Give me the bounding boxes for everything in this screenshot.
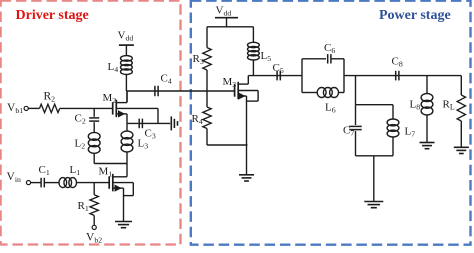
svg-text:L8: L8 [410, 99, 421, 112]
svg-text:Vin: Vin [7, 171, 21, 184]
svg-text:C1: C1 [39, 164, 50, 177]
svg-text:L7: L7 [405, 126, 416, 139]
svg-text:L1: L1 [70, 164, 81, 177]
svg-text:Driver stage: Driver stage [16, 8, 89, 23]
svg-text:C4: C4 [161, 73, 172, 86]
svg-text:L4: L4 [108, 61, 119, 74]
svg-text:Vb1: Vb1 [7, 102, 23, 115]
svg-text:C6: C6 [324, 42, 335, 55]
svg-text:RL: RL [443, 99, 455, 112]
svg-text:Vdd: Vdd [216, 5, 232, 18]
svg-text:L2: L2 [75, 138, 86, 151]
svg-text:Vdd: Vdd [118, 30, 134, 43]
svg-text:R3: R3 [193, 53, 204, 66]
svg-text:R4: R4 [192, 113, 203, 126]
svg-text:R1: R1 [78, 200, 89, 213]
svg-text:L6: L6 [325, 102, 336, 115]
svg-text:C2: C2 [75, 113, 86, 126]
svg-text:L5: L5 [261, 50, 272, 63]
svg-text:C5: C5 [273, 62, 284, 75]
svg-text:C8: C8 [392, 56, 403, 69]
svg-text:Vb2: Vb2 [86, 232, 102, 245]
svg-text:Power stage: Power stage [379, 8, 451, 23]
svg-text:M2: M2 [103, 92, 117, 105]
svg-text:C3: C3 [145, 128, 156, 141]
svg-text:M3: M3 [223, 76, 237, 89]
svg-text:R2: R2 [44, 91, 56, 104]
svg-text:M1: M1 [99, 166, 113, 179]
